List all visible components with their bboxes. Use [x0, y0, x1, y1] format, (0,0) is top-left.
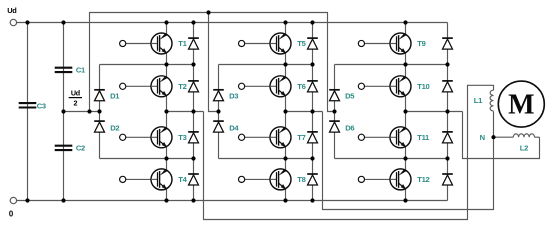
svg-text:N: N	[480, 133, 485, 142]
svg-text:T1: T1	[178, 39, 187, 48]
wire L2 right lead	[535, 136, 540, 138]
IGBT T4	[120, 169, 172, 190]
junction dots output and midpoint row	[61, 109, 449, 113]
clamp diode D3	[213, 90, 224, 101]
motor M	[498, 81, 544, 127]
freewheel diode of T8	[307, 174, 318, 185]
IGBT T11	[358, 127, 411, 148]
capacitor C3	[19, 103, 37, 107]
label Ud/2 fraction	[69, 89, 82, 108]
wire leg 2 output row	[286, 111, 323, 113]
wire Ud/2 feed to leg 2 clamp node	[209, 13, 219, 112]
IGBT T10	[358, 76, 411, 97]
wire leg 1 clamp branch D1-D2	[100, 64, 167, 66]
wire leg 2 collector column	[285, 23, 287, 201]
IGBT T3	[120, 127, 172, 148]
freewheel diode of T12	[442, 174, 453, 185]
freewheel diode of T5	[307, 38, 318, 49]
node N junction dot	[491, 135, 495, 139]
wire Ud/2 midpoint rail	[64, 111, 100, 113]
svg-text:T10: T10	[417, 82, 429, 91]
svg-text:D2: D2	[110, 123, 119, 132]
junction dots row CD	[164, 156, 449, 160]
svg-text:D6: D6	[345, 123, 354, 132]
wire leg 2 output route to node N	[323, 112, 494, 210]
IGBT T12	[358, 169, 411, 190]
wire leg 3 inner junction row CD	[406, 158, 448, 160]
svg-text:T7: T7	[297, 133, 305, 142]
capacitor C2	[55, 146, 73, 150]
svg-text:Ud: Ud	[71, 89, 80, 98]
svg-text:T12: T12	[417, 175, 429, 184]
svg-text:T2: T2	[178, 82, 186, 91]
IGBT T6	[239, 76, 292, 97]
svg-text:L1: L1	[474, 96, 483, 105]
freewheel diode of T9	[442, 38, 453, 49]
wire leg 1 collector column	[166, 23, 168, 201]
IGBT T7	[239, 127, 292, 148]
freewheel diode of T10	[442, 81, 453, 92]
freewheel diode of T6	[307, 81, 318, 92]
freewheel diode of T3	[188, 132, 199, 143]
wire leg 3 inner junction row AB	[406, 64, 448, 66]
svg-text:C3: C3	[37, 102, 46, 111]
wire C3 branch	[27, 23, 29, 201]
clamp diode D2	[94, 121, 105, 132]
terminal 0	[10, 197, 16, 203]
wire leg 1 output route to L1	[204, 85, 494, 219]
svg-text:M: M	[508, 89, 534, 120]
svg-text:T5: T5	[297, 39, 306, 48]
svg-text:2: 2	[74, 99, 78, 108]
clamp diode D4	[213, 121, 224, 132]
wire leg 1 inner junction row AB	[167, 64, 194, 66]
IGBT T9	[358, 33, 411, 54]
wire leg 3 output row	[406, 111, 463, 113]
svg-text:T6: T6	[297, 82, 305, 91]
wire leg 2 inner junction row CD	[286, 158, 313, 160]
svg-text:T4: T4	[178, 175, 187, 184]
freewheel diode of T2	[188, 81, 199, 92]
clamp diode D5	[329, 90, 340, 101]
junction dots row AB	[164, 62, 449, 66]
svg-text:L2: L2	[520, 144, 528, 153]
freewheel diode of T11	[442, 132, 453, 143]
freewheel diode of T7	[307, 132, 318, 143]
wire leg 2 freewheel diode column	[312, 23, 314, 201]
capacitor C1	[55, 68, 73, 72]
svg-text:D5: D5	[345, 91, 355, 100]
wire top rail Ud+	[17, 22, 448, 24]
wire bottom rail 0	[17, 200, 448, 202]
wire Ud/2 top distribution route	[90, 13, 335, 112]
wire L1 bottom to node N	[493, 111, 495, 137]
svg-text:T3: T3	[178, 133, 186, 142]
junction dot top distribution route	[206, 10, 210, 14]
wire leg 3 collector column	[405, 23, 407, 201]
wire leg 2 inner junction row AB	[286, 64, 313, 66]
wire leg 3 output route to L2	[463, 112, 540, 159]
clamp diode D6	[329, 121, 340, 132]
svg-text:D3: D3	[229, 91, 238, 100]
junction dots top rail	[25, 20, 407, 24]
svg-text:D4: D4	[229, 123, 239, 132]
freewheel diode of T1	[188, 38, 199, 49]
terminal Ud	[10, 19, 16, 25]
freewheel diode of T4	[188, 174, 199, 185]
wire C1-C2 branch	[63, 23, 65, 201]
IGBT T5	[239, 33, 292, 54]
svg-text:C2: C2	[76, 144, 85, 153]
wire leg 3 freewheel diode column	[447, 23, 449, 201]
IGBT T8	[239, 169, 292, 190]
inductor L1	[490, 90, 493, 111]
wire leg 3 clamp branch D5-D6	[335, 64, 406, 66]
svg-text:T8: T8	[297, 175, 305, 184]
IGBT T2	[120, 76, 172, 97]
svg-text:D1: D1	[110, 91, 120, 100]
wire node N to L2	[494, 136, 514, 138]
svg-text:Ud: Ud	[7, 6, 17, 15]
wire leg 1 inner junction row CD	[167, 158, 194, 160]
inductor L2	[513, 134, 534, 137]
wire leg 1 freewheel diode column	[193, 23, 195, 201]
svg-text:T11: T11	[417, 133, 430, 142]
junction dots bottom rail	[25, 198, 407, 202]
svg-text:T9: T9	[417, 39, 425, 48]
wire leg 2 clamp branch D3-D4	[219, 64, 286, 66]
svg-text:C1: C1	[76, 66, 86, 75]
IGBT T1	[120, 33, 172, 54]
wire leg 1 output row	[167, 111, 204, 113]
clamp diode D1	[94, 90, 105, 101]
